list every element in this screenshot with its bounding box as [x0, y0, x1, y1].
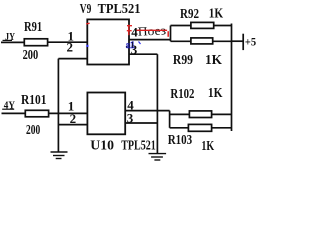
red tick right: [167, 31, 169, 37]
wire R102 right: [212, 113, 232, 115]
node JY underline: [3, 39, 13, 41]
svg-text:200: 200: [26, 123, 40, 138]
svg-text:JY: JY: [5, 31, 15, 43]
wire R101 to U10 pin1: [49, 112, 88, 114]
svg-text:R92: R92: [180, 7, 199, 22]
red annotation bracket at V9 pin4: [127, 25, 132, 36]
svg-text:1K: 1K: [209, 6, 223, 21]
svg-text:R101: R101: [21, 93, 47, 108]
wire U10 pin3: [125, 122, 157, 124]
svg-text:V9: V9: [80, 2, 92, 17]
svg-text:TPL521: TPL521: [98, 2, 141, 17]
svg-text:TPL521: TPL521: [121, 139, 156, 154]
ground 2: [149, 153, 167, 155]
optocoupler V9 (TPL521) box: [87, 19, 129, 64]
svg-text:a1: a1: [126, 41, 135, 51]
wire V9 pin3: [129, 53, 157, 55]
wire +5 branch: [232, 40, 243, 42]
wire +5 rail vertical: [231, 24, 233, 132]
ground: [51, 151, 68, 153]
power +5 bar: [242, 34, 244, 50]
svg-text:1K: 1K: [201, 139, 214, 154]
resistor R99: [191, 38, 213, 44]
red tick at V9 top-left corner: [86, 22, 89, 25]
svg-text:R91: R91: [24, 20, 42, 35]
wire node A to R99: [171, 40, 192, 42]
svg-text:R102: R102: [170, 87, 194, 102]
resistor R102: [189, 111, 211, 118]
red strikethrough: [137, 29, 168, 31]
svg-text:1K: 1K: [205, 53, 222, 68]
blue tick: [139, 42, 141, 45]
optocoupler U10 (TPL521) box: [87, 93, 125, 135]
svg-text:2: 2: [67, 39, 74, 54]
wire R92 left: [171, 25, 192, 27]
wire U10 pin4: [125, 110, 169, 112]
wire vertical pin3 to ground: [156, 54, 158, 153]
wire V9 pin2: [58, 58, 87, 60]
wire R102 left: [170, 113, 190, 115]
resistor R91: [24, 39, 47, 46]
wire R103 right: [212, 127, 232, 129]
svg-text:Поез: Поез: [137, 23, 166, 38]
wire vertical pin2 to ground: [57, 59, 59, 152]
svg-text:R103: R103: [168, 133, 193, 148]
node JY input wire: [1, 41, 25, 43]
svg-text:4Y: 4Y: [4, 99, 15, 111]
svg-text:2: 2: [70, 111, 77, 126]
svg-text:R99: R99: [173, 53, 193, 68]
blue dot at V9 left edge: [86, 45, 88, 47]
node 4Y underline: [2, 108, 14, 110]
resistor R92: [191, 22, 214, 28]
svg-text:1K: 1K: [208, 86, 223, 101]
wire V9 pin4: [129, 39, 171, 41]
svg-text:3: 3: [127, 110, 134, 125]
resistor R103: [188, 124, 211, 131]
wire R103 left: [170, 127, 189, 129]
resistor R101: [25, 110, 48, 117]
node 4Y input wire: [2, 112, 26, 114]
svg-text:+5: +5: [245, 35, 256, 49]
wire node A vertical to R92: [170, 26, 172, 42]
wire R92 right: [214, 25, 232, 27]
svg-text:200: 200: [23, 48, 39, 63]
wire R91 to V9 pin1: [48, 41, 88, 43]
wire node B vertical: [169, 111, 171, 128]
svg-text:U10: U10: [90, 139, 114, 154]
wire U10 pin2: [58, 124, 87, 126]
wire R99 right: [213, 40, 232, 42]
